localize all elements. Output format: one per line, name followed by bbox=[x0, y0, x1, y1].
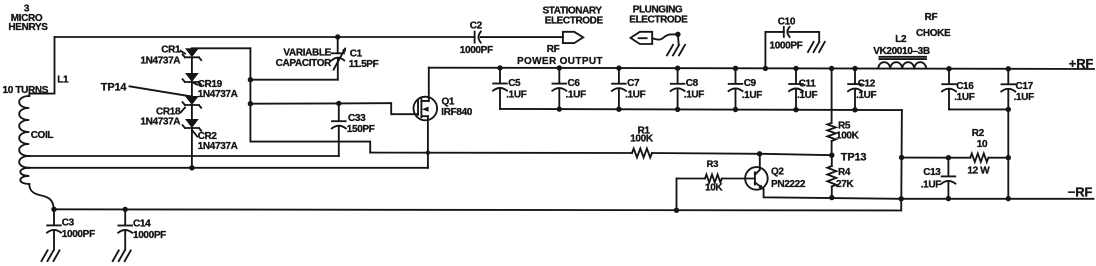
resistor R2 10 12W bbox=[967, 128, 990, 177]
node junction C17 bus on minus RF line bbox=[1006, 196, 1011, 201]
svg-text:C11: C11 bbox=[799, 78, 817, 89]
svg-text:ELECTRODE: ELECTRODE bbox=[629, 15, 688, 26]
label PLUNGING ELECTRODE bbox=[629, 4, 688, 25]
wire squiggle from plunging electrode to ground bbox=[652, 34, 678, 39]
svg-text:VK20010–3B: VK20010–3B bbox=[873, 46, 930, 57]
capacitor C2 1000PF bbox=[460, 21, 493, 57]
svg-text:.1UF: .1UF bbox=[856, 90, 877, 101]
svg-text:ELECTRODE: ELECTRODE bbox=[545, 16, 604, 27]
capacitor C14 bbox=[118, 209, 166, 249]
svg-text:L1: L1 bbox=[57, 75, 69, 86]
node junction C13 bottom on minus RF line bbox=[946, 196, 951, 201]
svg-text:.1UF: .1UF bbox=[506, 89, 527, 100]
node junction Q2 collector on R1 line bbox=[757, 151, 762, 156]
plunging electrode symbol bbox=[631, 32, 653, 44]
ground symbol at C10 bbox=[808, 42, 825, 52]
svg-text:100K: 100K bbox=[836, 130, 860, 141]
node junction R5 branch on RF rail bbox=[829, 66, 834, 71]
node junction C17 bottom bbox=[1006, 107, 1011, 112]
svg-text:C12: C12 bbox=[858, 78, 876, 89]
label RF POWER OUTPUT bbox=[517, 44, 603, 67]
resistor R4 27K bbox=[827, 166, 854, 190]
svg-text:IRF840: IRF840 bbox=[441, 107, 472, 118]
svg-text:COIL: COIL bbox=[31, 130, 54, 141]
svg-text:C33: C33 bbox=[348, 113, 366, 124]
node junction R4 bottom on minus RF line bbox=[829, 195, 834, 200]
node junction C11 on RF rail bbox=[793, 66, 798, 71]
wire TP14 leader line to zener chain bbox=[130, 86, 192, 96]
svg-text:C10: C10 bbox=[778, 17, 796, 28]
node junction return bus on R1 line bbox=[899, 155, 904, 160]
zener diode CR2 1N4737A bbox=[183, 119, 238, 152]
svg-text:C2: C2 bbox=[470, 21, 483, 32]
node junction C9 on RF rail bbox=[733, 66, 738, 71]
svg-text:1N4737A: 1N4737A bbox=[140, 116, 180, 127]
wire ground rail along bottom bbox=[54, 209, 901, 210]
capacitor C11 .1UF bbox=[789, 68, 818, 109]
svg-text:27K: 27K bbox=[836, 179, 854, 190]
capacitor C33 150PF bbox=[332, 103, 375, 156]
wire Q2 base lead from R3 vertical bbox=[677, 178, 706, 180]
resistor R1 100K bbox=[630, 125, 654, 157]
svg-text:−RF: −RF bbox=[1068, 185, 1093, 200]
svg-text:L2: L2 bbox=[895, 34, 907, 45]
wire L1 bottom lead to ground rail bbox=[29, 184, 54, 209]
wire TP13 to R4 bbox=[831, 155, 833, 166]
capacitor C7 .1UF bbox=[612, 68, 646, 109]
node junction C7 on RF rail bbox=[616, 65, 621, 70]
wire R5 lead from RF rail bbox=[831, 69, 833, 123]
svg-text:.1UF: .1UF bbox=[625, 90, 646, 101]
node junction C6 on RF rail bbox=[557, 65, 562, 70]
wire C10 branch up and over bbox=[765, 32, 783, 69]
wire C10 to ground bbox=[790, 32, 820, 42]
svg-text:R3: R3 bbox=[707, 159, 719, 170]
label VARIABLE CAPACITOR bbox=[276, 47, 332, 68]
svg-text:1N4737A: 1N4737A bbox=[198, 89, 238, 100]
wire top rail from L1 top to C2 bbox=[55, 36, 475, 38]
capacitor C9 .1UF bbox=[729, 68, 763, 109]
svg-text:CAPACITOR: CAPACITOR bbox=[276, 58, 332, 69]
node junction C1 bottom on bus bbox=[248, 77, 253, 82]
wire C2 to stationary electrode bbox=[481, 36, 563, 38]
zener diode CR1 1N4737A bbox=[140, 45, 201, 67]
node junction Q1 source and R1 feed line bbox=[426, 151, 430, 155]
wire between CR18 and CR2 bbox=[191, 105, 193, 119]
wire stub to ground bbox=[677, 34, 680, 44]
wire vertical from top rail down to coil L1 top bbox=[29, 37, 54, 96]
svg-text:C5: C5 bbox=[508, 78, 521, 89]
svg-text:+RF: +RF bbox=[1069, 56, 1094, 71]
wire between CR19 and CR18 bbox=[191, 82, 193, 96]
node junction C10 on RF rail bbox=[763, 66, 768, 71]
svg-text:Q2: Q2 bbox=[771, 167, 784, 178]
node TP13 bbox=[829, 153, 834, 158]
svg-text:PN2222: PN2222 bbox=[771, 179, 806, 190]
wire R3 to Q2 base bbox=[722, 178, 755, 180]
label L1 10 TURNS bbox=[3, 75, 70, 96]
wire RF power output rail bbox=[429, 68, 1094, 69]
svg-text:.1UF: .1UF bbox=[797, 90, 818, 101]
ground symbol below C3 bbox=[42, 250, 60, 261]
capacitor C16 .1UF bbox=[942, 69, 975, 110]
ground symbol below C14 bbox=[113, 251, 131, 262]
wire C1 bottom to node A bus bbox=[250, 79, 337, 81]
wire zener chain top link to node A vertical bbox=[192, 47, 251, 49]
svg-text:C8: C8 bbox=[686, 78, 699, 89]
wire gate line from bus to Q1 gate bbox=[250, 103, 418, 114]
label STATIONARY ELECTRODE bbox=[543, 5, 604, 26]
label 3 MICRO HENRYS for L1 bbox=[8, 3, 48, 33]
svg-text:C9: C9 bbox=[744, 78, 757, 89]
svg-text:150PF: 150PF bbox=[347, 124, 375, 135]
node junction plunging electrode ground bbox=[675, 32, 680, 37]
svg-text:.1UF: .1UF bbox=[742, 90, 763, 101]
svg-text:C13: C13 bbox=[923, 167, 941, 178]
node junction C12 on RF rail bbox=[852, 66, 857, 71]
zener diode CR18 1N4737A bbox=[140, 96, 201, 127]
svg-text:11.5PF: 11.5PF bbox=[349, 59, 379, 70]
capacitor C13 .1UF bbox=[921, 158, 956, 199]
wire R2 right lead bbox=[989, 157, 1009, 159]
wire from return bus to C13 and R2 bbox=[902, 157, 971, 159]
svg-text:VARIABLE: VARIABLE bbox=[283, 47, 331, 58]
ground symbol at plunging electrode bbox=[667, 45, 685, 55]
node junction C3 on ground rail bbox=[51, 207, 56, 212]
node junction gate line on bus bbox=[248, 101, 253, 106]
node junctions on capacitor return rail bbox=[557, 106, 858, 112]
wire CR2 cathode down to tap line bbox=[191, 128, 193, 168]
svg-text:.1UF: .1UF bbox=[684, 90, 705, 101]
svg-text:1000PF: 1000PF bbox=[460, 45, 493, 56]
node junction C5 on RF rail bbox=[497, 65, 502, 70]
svg-text:10 TURNS: 10 TURNS bbox=[3, 85, 49, 96]
svg-text:C14: C14 bbox=[133, 219, 151, 230]
svg-text:100K: 100K bbox=[630, 134, 654, 145]
capacitor C5 .1UF bbox=[493, 68, 527, 109]
svg-text:1000PF: 1000PF bbox=[770, 41, 803, 52]
wire Q2 collector lead bbox=[755, 154, 760, 175]
node junction R2 right on C17 bus bbox=[1006, 155, 1011, 160]
svg-text:1000PF: 1000PF bbox=[133, 230, 166, 241]
svg-text:C16: C16 bbox=[956, 81, 974, 92]
capacitor C8 .1UF bbox=[671, 68, 705, 109]
capacitor C6 .1UF bbox=[552, 68, 586, 109]
svg-text:.1UF: .1UF bbox=[954, 92, 975, 103]
resistor R3 10K bbox=[705, 159, 723, 194]
wire Q1 drain up to RF output rail bbox=[428, 68, 430, 101]
wire R1 feed line left segment bbox=[370, 152, 632, 154]
svg-text:RF: RF bbox=[925, 12, 938, 23]
inductor L2 RF choke bbox=[873, 12, 951, 69]
wire Q2 emitter down and right forming minus RF line bbox=[764, 189, 1094, 199]
wire node A vertical bus bbox=[249, 48, 251, 141]
svg-text:.1UF: .1UF bbox=[566, 90, 587, 101]
wire between CR1 and CR19 bbox=[191, 57, 193, 73]
node junction C33 top bbox=[336, 101, 341, 106]
node junction C14 on ground rail bbox=[123, 207, 128, 212]
node junction C16 on RF rail bbox=[946, 66, 951, 71]
svg-text:R4: R4 bbox=[838, 167, 851, 178]
svg-text:10: 10 bbox=[977, 139, 988, 150]
resistor R5 100K bbox=[827, 120, 859, 141]
svg-text:POWER OUTPUT: POWER OUTPUT bbox=[517, 56, 603, 67]
wire Q1 source down to lower tap line bbox=[427, 116, 429, 168]
wire C17 bus down to minus RF rail bbox=[1007, 109, 1009, 198]
svg-text:C6: C6 bbox=[568, 78, 581, 89]
stationary electrode symbol bbox=[563, 32, 583, 43]
svg-text:C1: C1 bbox=[350, 49, 363, 60]
capacitor C17 .1UF bbox=[1001, 69, 1034, 110]
wire R4 to emitter line bbox=[831, 186, 833, 197]
node junction C17 on RF rail bbox=[1006, 66, 1011, 71]
svg-text:1N4737A: 1N4737A bbox=[140, 55, 180, 66]
capacitor C12 .1UF bbox=[848, 69, 877, 110]
node junction return bus on minus RF line bbox=[899, 196, 904, 201]
capacitor C3 bbox=[47, 209, 95, 249]
transistor Q2 PN2222 bbox=[745, 167, 806, 191]
wire coil upper tap to C33 bottom bbox=[29, 155, 339, 157]
svg-text:.1UF: .1UF bbox=[921, 180, 942, 191]
capacitor C10 1000PF bbox=[770, 17, 803, 52]
svg-text:10K: 10K bbox=[705, 182, 723, 193]
svg-text:CR1: CR1 bbox=[161, 45, 181, 56]
wire R3 left lead down to ground rail bbox=[676, 179, 678, 211]
svg-text:TP13: TP13 bbox=[841, 151, 867, 163]
wire C16 bottom to C17 bottom bbox=[949, 108, 1008, 110]
inductor L1 coil bbox=[19, 96, 29, 156]
svg-text:1000PF: 1000PF bbox=[62, 229, 95, 240]
node junction C1 on top rail bbox=[335, 34, 340, 39]
zener diode CR19 1N4737A bbox=[183, 73, 238, 100]
wire vertical return bus down to ground rail bbox=[900, 110, 903, 210]
svg-text:Q1: Q1 bbox=[442, 97, 455, 108]
node junction R3 on ground rail bbox=[674, 208, 679, 213]
wire R5 to TP13 bbox=[831, 141, 833, 155]
svg-text:C3: C3 bbox=[62, 218, 75, 229]
node junction C8 on RF rail bbox=[675, 66, 680, 71]
node junction C13 top bbox=[946, 155, 951, 160]
svg-text:RF: RF bbox=[547, 44, 560, 55]
svg-text:TP14: TP14 bbox=[101, 82, 128, 94]
svg-text:CHOKE: CHOKE bbox=[916, 28, 951, 39]
node junction zener chain on lower tap line bbox=[189, 165, 194, 170]
svg-text:HENRYS: HENRYS bbox=[8, 22, 48, 33]
svg-text:R2: R2 bbox=[972, 128, 985, 139]
svg-text:12 W: 12 W bbox=[967, 166, 990, 177]
wire R1 to Q2 collector and TP13 bbox=[652, 153, 832, 155]
mosfet Q1 IRF840 bbox=[414, 97, 473, 121]
wire coil lower tap to Q1 source bbox=[29, 167, 428, 169]
svg-text:1N4737A: 1N4737A bbox=[198, 141, 238, 152]
svg-text:C7: C7 bbox=[627, 78, 640, 89]
wire node A bus bottom to R1 feed line bbox=[250, 142, 370, 153]
svg-text:C17: C17 bbox=[1016, 81, 1034, 92]
wire capacitor return rail bbox=[500, 109, 902, 110]
variable capacitor C1 11.5PF bbox=[332, 37, 379, 80]
svg-text:.1UF: .1UF bbox=[1014, 92, 1035, 103]
